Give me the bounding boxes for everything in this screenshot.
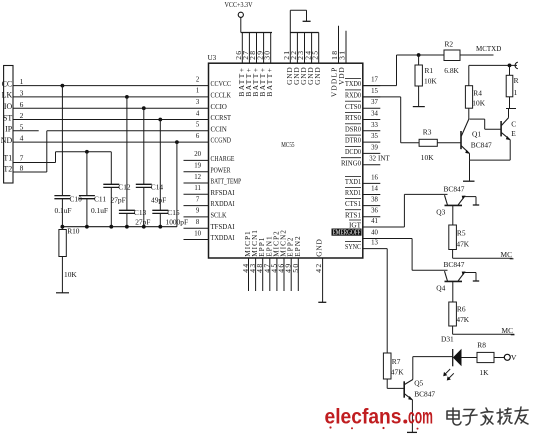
svg-text:50: 50	[291, 262, 300, 272]
svg-text:10K: 10K	[424, 77, 437, 86]
svg-text:31: 31	[338, 50, 347, 60]
svg-text:38: 38	[371, 197, 378, 204]
svg-text:C15: C15	[167, 208, 180, 217]
svg-text:BC847: BC847	[471, 141, 492, 150]
svg-text:49pF: 49pF	[151, 195, 166, 204]
svg-text:CTS1: CTS1	[345, 199, 361, 208]
svg-text:T1: T1	[3, 153, 12, 162]
svg-text:INT: INT	[378, 155, 390, 163]
svg-text:25: 25	[310, 50, 319, 60]
svg-text:47K: 47K	[456, 239, 469, 248]
svg-text:5: 5	[20, 122, 24, 131]
svg-text:14: 14	[371, 186, 378, 193]
svg-text:RXDDAI: RXDDAI	[211, 199, 235, 208]
svg-text:CC: CC	[2, 79, 13, 88]
svg-text:CHARGE: CHARGE	[211, 154, 235, 163]
svg-text:U3: U3	[208, 53, 217, 62]
svg-text:36: 36	[371, 208, 378, 215]
svg-text:CCCLK: CCCLK	[211, 91, 232, 100]
svg-text:1K: 1K	[479, 368, 489, 377]
svg-text:DSR0: DSR0	[345, 124, 361, 133]
svg-text:GND: GND	[315, 238, 324, 256]
svg-text:com: com	[408, 405, 433, 429]
svg-text:2: 2	[20, 111, 24, 120]
svg-text:0.1uF: 0.1uF	[55, 206, 72, 215]
svg-text:17: 17	[371, 77, 378, 84]
svg-text:MC: MC	[502, 326, 514, 335]
svg-text:elecfans: elecfans	[325, 405, 402, 429]
svg-text:R3: R3	[423, 127, 432, 136]
svg-text:IP: IP	[5, 125, 13, 134]
svg-text:32: 32	[369, 156, 376, 163]
svg-text:E: E	[511, 129, 516, 138]
svg-text:C13: C13	[134, 208, 147, 217]
svg-text:GND: GND	[313, 67, 322, 85]
svg-text:ND: ND	[1, 136, 13, 145]
svg-text:7: 7	[20, 154, 24, 163]
svg-text:IO: IO	[4, 102, 13, 111]
svg-text:CCRST: CCRST	[211, 113, 232, 122]
svg-text:TXD1: TXD1	[345, 177, 361, 186]
svg-text:19: 19	[194, 163, 201, 170]
svg-text:DCD0: DCD0	[345, 147, 361, 156]
svg-text:CTS0: CTS0	[345, 102, 361, 111]
svg-text:R10: R10	[67, 227, 80, 236]
svg-text:13: 13	[371, 240, 378, 247]
svg-text:T2: T2	[3, 164, 12, 173]
svg-text:MC: MC	[501, 250, 513, 259]
svg-text:33: 33	[371, 122, 378, 129]
svg-text:4: 4	[20, 134, 24, 143]
svg-text:1: 1	[20, 77, 24, 86]
svg-text:42: 42	[314, 262, 323, 272]
svg-text:R2: R2	[445, 40, 454, 49]
svg-text:9: 9	[196, 208, 200, 215]
svg-text:SCLK: SCLK	[211, 211, 227, 220]
svg-text:TXD0: TXD0	[345, 79, 361, 88]
svg-text:C11: C11	[94, 195, 106, 204]
svg-text:Q4: Q4	[436, 284, 445, 293]
svg-text:CCGND: CCGND	[211, 136, 232, 145]
svg-text:27pF: 27pF	[111, 195, 126, 204]
svg-text:R8: R8	[477, 341, 486, 350]
svg-text:10: 10	[194, 230, 201, 237]
svg-text:1: 1	[196, 88, 199, 95]
svg-text:TXDDAI: TXDDAI	[211, 233, 235, 242]
svg-text:0.1uF: 0.1uF	[91, 206, 108, 215]
svg-text:RTS1: RTS1	[345, 210, 361, 219]
svg-text:D31: D31	[441, 335, 454, 344]
svg-text:3: 3	[20, 89, 24, 98]
svg-text:11: 11	[194, 185, 201, 192]
svg-text:Q5: Q5	[414, 379, 423, 388]
svg-text:C14: C14	[151, 183, 164, 192]
svg-text:10K: 10K	[472, 99, 485, 108]
svg-text:VCC+3.3V: VCC+3.3V	[225, 1, 253, 9]
svg-text:MC55: MC55	[281, 140, 294, 149]
svg-text:R: R	[514, 76, 519, 85]
svg-text:16: 16	[371, 174, 378, 181]
svg-text:VDD: VDD	[337, 67, 346, 85]
svg-text:R4: R4	[473, 88, 482, 97]
svg-text:RXD0: RXD0	[345, 91, 361, 100]
svg-text:RTS0: RTS0	[345, 113, 361, 122]
svg-text:47K: 47K	[391, 368, 404, 377]
svg-text:35: 35	[371, 133, 378, 140]
svg-text:BC847: BC847	[414, 390, 435, 399]
svg-text:R7: R7	[392, 357, 401, 366]
svg-text:RING0: RING0	[341, 158, 361, 167]
svg-text:4: 4	[196, 110, 200, 117]
svg-text:R6: R6	[457, 305, 466, 314]
svg-text:LK: LK	[2, 91, 13, 100]
svg-text:BATT+: BATT+	[265, 67, 274, 97]
svg-text:C: C	[511, 119, 516, 128]
svg-text:RXD1: RXD1	[345, 188, 361, 197]
svg-text:RFSDAI: RFSDAI	[211, 188, 235, 197]
svg-text:30: 30	[262, 50, 271, 60]
svg-text:ST: ST	[3, 113, 12, 122]
svg-text:2: 2	[196, 76, 200, 83]
svg-text:C12: C12	[118, 183, 131, 192]
svg-text:R5: R5	[457, 229, 466, 238]
svg-text:37: 37	[371, 99, 378, 106]
svg-text:3: 3	[196, 99, 200, 106]
svg-text:34: 34	[371, 111, 378, 118]
svg-text:20: 20	[194, 151, 201, 158]
svg-text:15: 15	[371, 88, 378, 95]
svg-text:EPN2: EPN2	[293, 235, 302, 256]
svg-text:6: 6	[196, 133, 200, 140]
svg-text:BC847: BC847	[444, 184, 465, 193]
svg-text:EMERGOFF: EMERGOFF	[333, 229, 361, 237]
svg-text:POWER: POWER	[211, 165, 232, 174]
svg-text:CCIO: CCIO	[211, 102, 228, 111]
svg-text:6.8K: 6.8K	[444, 66, 459, 75]
svg-text:10K: 10K	[64, 270, 77, 279]
svg-text:DTR0: DTR0	[345, 136, 361, 145]
svg-text:BATT_TEMP: BATT_TEMP	[211, 177, 242, 186]
svg-text:Q1: Q1	[472, 130, 481, 139]
svg-text:6: 6	[20, 100, 24, 109]
svg-text:40: 40	[371, 230, 378, 237]
svg-text:SYNC: SYNC	[345, 242, 361, 251]
svg-text:5: 5	[196, 122, 200, 129]
svg-text:12: 12	[194, 174, 201, 181]
svg-text:TFSDAI: TFSDAI	[211, 222, 235, 231]
svg-text:MCTXD: MCTXD	[476, 45, 501, 53]
svg-text:CCIN: CCIN	[211, 124, 228, 133]
svg-text:47K: 47K	[456, 315, 469, 324]
svg-text:10K: 10K	[421, 153, 434, 162]
svg-text:Q3: Q3	[436, 208, 445, 217]
svg-text:8: 8	[196, 219, 200, 226]
svg-text:BC847: BC847	[444, 260, 465, 269]
svg-text:R1: R1	[425, 66, 434, 75]
svg-text:39: 39	[371, 144, 378, 151]
svg-text:8: 8	[20, 163, 24, 172]
svg-text:1: 1	[514, 88, 518, 97]
svg-text:7: 7	[196, 196, 200, 203]
svg-text:V: V	[511, 353, 517, 362]
svg-text:CCVCC: CCVCC	[211, 79, 232, 88]
svg-text:41: 41	[371, 218, 378, 225]
